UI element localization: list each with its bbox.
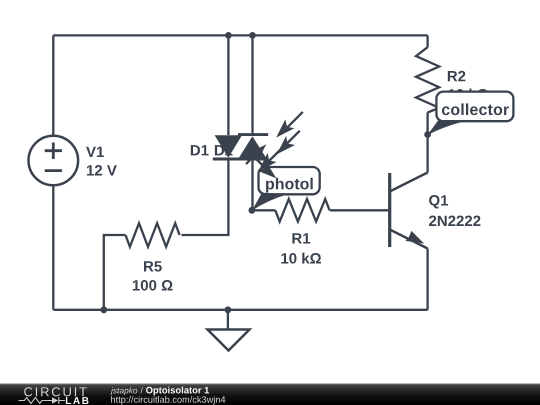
wire: R5 left lead to bottom rail bbox=[104, 235, 126, 310]
light arrow C1 out of D2 bbox=[246, 152, 258, 164]
ground bbox=[208, 330, 250, 351]
label R2 value (hidden behind collector flag) bbox=[448, 89, 488, 100]
CircuitLab logo: LAB bbox=[66, 397, 89, 404]
node flag: collector bbox=[428, 92, 514, 135]
light arrow B2 out of D1 bbox=[254, 157, 271, 173]
wire: bottom rail bbox=[53, 309, 427, 311]
label R1 value bbox=[281, 253, 321, 264]
resistor R2 bbox=[416, 47, 439, 112]
resistor R1 bbox=[275, 199, 329, 222]
transistor Q1 2N2222 bbox=[390, 173, 428, 249]
white separation band between D1 and D2 symbols bbox=[237, 134, 253, 161]
photodiode D2 base underline bbox=[239, 158, 267, 161]
wire: ground stub bbox=[227, 310, 229, 330]
diode D1 (LED, pointing down) bbox=[215, 135, 242, 158]
label R5 bbox=[144, 261, 162, 271]
wire: R2 bottom lead to collector node bbox=[426, 112, 428, 134]
label R5 value bbox=[133, 280, 173, 291]
footer credit: url bbox=[111, 396, 225, 405]
label R2 bbox=[448, 71, 466, 82]
label V1 value bbox=[87, 165, 117, 176]
wire: collector node to Q1 collector bbox=[426, 135, 428, 173]
CircuitLab logo: resistor-diode glyph bbox=[19, 397, 66, 404]
wire: left rail lower bbox=[52, 185, 54, 309]
label D2 (hidden behind D1 symbol) bbox=[215, 145, 233, 156]
light arrow A1 into D2 bbox=[284, 112, 303, 131]
voltage source V1 bbox=[29, 136, 79, 186]
junction node dots bbox=[225, 32, 232, 39]
wire: photol node to R1 left lead bbox=[252, 209, 275, 211]
wire: D2 branch from top rail bbox=[251, 35, 253, 134]
photodiode D2 (pointing up) bbox=[239, 136, 267, 158]
wire: top rail bbox=[53, 34, 427, 36]
label V1 bbox=[86, 147, 104, 157]
wire: Q1 emitter to bottom rail bbox=[426, 249, 428, 310]
photodiode D2 cathode bar bbox=[238, 133, 268, 136]
wire: D2 anode down to photol node bbox=[251, 158, 253, 210]
node flag: photol bbox=[252, 167, 320, 211]
label D1 bbox=[191, 145, 209, 155]
label R1 bbox=[292, 233, 310, 243]
wire: D1 branch from top rail bbox=[227, 35, 229, 135]
wire: R1 right lead to Q1 base bbox=[330, 209, 389, 211]
diode D1 cathode bar bbox=[213, 158, 243, 161]
footer credit: author / title bbox=[110, 387, 137, 395]
wire: left rail upper bbox=[52, 35, 54, 136]
resistor R5 bbox=[126, 223, 180, 247]
wire: R2 top lead bbox=[426, 35, 428, 47]
CircuitLab logo: CIRCUIT bbox=[24, 387, 86, 396]
label Q1 type bbox=[429, 216, 480, 227]
light arrow B1 into D1 bbox=[266, 147, 283, 164]
label Q1 bbox=[429, 195, 448, 209]
wire: D1 cathode down to R5 corner bbox=[182, 159, 229, 235]
light arrow A2 into D2 bbox=[285, 131, 300, 146]
